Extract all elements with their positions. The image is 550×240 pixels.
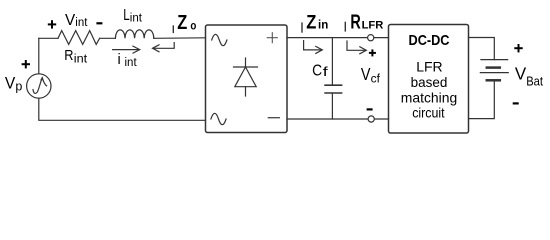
svg-text:Z: Z — [306, 12, 316, 34]
label - of Vcf — [367, 108, 373, 110]
svg-text:DC-DC: DC-DC — [409, 33, 450, 49]
AC symbol bottom input — [211, 113, 226, 124]
svg-text:Z: Z — [177, 12, 187, 34]
reference tick of RLFR — [344, 22, 346, 31]
svg-text:based: based — [411, 74, 448, 90]
wire source bottom to bottom rail — [39, 98, 206, 120]
DC-DC block box — [389, 25, 469, 134]
svg-text:circuit: circuit — [412, 105, 444, 121]
svg-text:V: V — [515, 64, 527, 84]
svg-text:cf: cf — [371, 73, 381, 85]
wire battery bottom to DC-DC — [469, 80, 495, 118]
svg-text:R: R — [350, 12, 361, 34]
svg-text:f: f — [323, 64, 329, 79]
label + of Vint — [48, 20, 56, 28]
svg-text:p: p — [15, 80, 22, 94]
svg-text:R: R — [64, 47, 73, 64]
svg-text:int: int — [125, 57, 138, 69]
rectifier - output sign — [268, 117, 279, 119]
wire resistor to inductor — [100, 37, 116, 39]
reference tick of Zo — [172, 26, 174, 32]
label - of VBat — [513, 102, 519, 104]
reference tick of Zin — [301, 23, 303, 32]
wire rectifier to DC-DC bottom — [287, 118, 389, 120]
wire inductor to rectifier — [154, 37, 206, 40]
svg-text:Bat: Bat — [526, 74, 543, 88]
rectifier U1 box — [206, 25, 288, 133]
diode D1 — [234, 58, 258, 96]
svg-text:LFR: LFR — [416, 59, 442, 75]
wire top rail to resistor — [39, 37, 58, 39]
svg-text:int: int — [74, 53, 88, 65]
svg-text:V: V — [65, 12, 76, 29]
svg-text:int: int — [75, 17, 88, 29]
impedance arrow Zo — [153, 43, 174, 49]
resistor Rint — [58, 31, 100, 45]
battery VBat plates — [481, 59, 508, 61]
svg-text:o: o — [190, 18, 196, 32]
node terminal bottom (Vcf -) — [368, 116, 374, 122]
polarity + of Vp — [22, 60, 30, 68]
label + of Vcf — [369, 49, 376, 56]
wire rectifier to DC-DC top — [287, 37, 389, 39]
svg-text:matching: matching — [401, 90, 457, 106]
impedance arrow RLFR — [347, 41, 366, 50]
current arrow i_int — [113, 49, 139, 51]
svg-text:C: C — [312, 63, 322, 80]
label + of VBat — [514, 44, 522, 52]
impedance arrow Zin — [304, 41, 322, 50]
svg-text:V: V — [361, 64, 371, 84]
svg-text:i: i — [118, 52, 121, 68]
node terminal top (Vcf +) — [368, 35, 374, 41]
voltage source Vp — [27, 74, 51, 98]
label - of Vint — [96, 22, 102, 24]
rectifier + output sign — [267, 33, 277, 43]
svg-text:LFR: LFR — [362, 20, 384, 32]
inductor Lint — [115, 30, 153, 38]
AC symbol top input — [212, 34, 227, 45]
wire DC-DC to battery top — [469, 38, 495, 60]
wire from source top to top rail — [38, 38, 40, 74]
svg-text:in: in — [318, 20, 328, 32]
capacitor Cf — [331, 38, 333, 86]
svg-text:int: int — [130, 13, 143, 25]
